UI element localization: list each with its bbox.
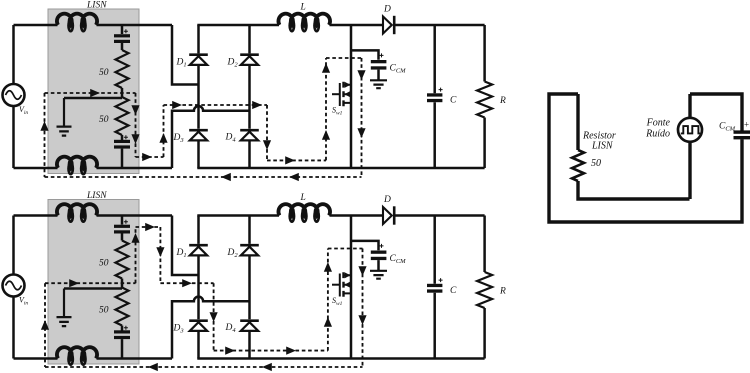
dashed CM path: to switch (267, 159, 326, 161)
dashed CM path 2: switch box left up (327, 249, 329, 351)
svg-text:50: 50 (591, 158, 601, 169)
dashed CM path: bottom return rail (45, 176, 362, 178)
dashed CM path: ground line (45, 92, 136, 94)
noise source branch (688, 94, 691, 199)
dashed CM path: switch box right down (361, 58, 363, 177)
dashed CM path 2: bottom return rail (45, 366, 363, 368)
svg-text:Ruído: Ruído (645, 129, 670, 140)
noise source (Fonte Ruido) (678, 118, 702, 142)
dashed CM path 2: left vertical (44, 283, 46, 367)
dashed CM path: down right of bridge (266, 105, 268, 160)
dashed CM path 2: ground line (45, 282, 136, 284)
converter circuit instance 2 (bottom) (3, 191, 507, 365)
dashed CM path 2: switch box right down (362, 249, 364, 368)
dashed CM path 2: switch box top (328, 248, 363, 250)
dashed CM path: switch box left up (325, 58, 327, 160)
resistor LISN 50 branch (578, 94, 690, 199)
capacitor CCM right (734, 130, 750, 133)
dashed CM path 2: to switch (214, 350, 328, 352)
dashed CM path: LISN right down (135, 93, 137, 157)
equivalent circuit outer loop (549, 94, 742, 222)
dashed CM path: up to bridge (163, 105, 165, 157)
svg-text:+: + (744, 120, 749, 130)
svg-text:Fonte: Fonte (646, 118, 671, 129)
dashed CM path: left vertical (44, 93, 46, 177)
dashed CM path 2: exit LISN high (136, 226, 161, 228)
dashed CM path: exit LISN (136, 156, 164, 158)
dashed CM path: across bridge (164, 104, 268, 106)
dashed CM path 2: down to bridge (159, 227, 161, 283)
svg-text:LISN: LISN (591, 141, 614, 152)
dashed CM path 2: across to bridge center (160, 282, 213, 284)
dashed CM path 2: LISN up (135, 227, 137, 283)
dashed CM path: switch box top (326, 57, 362, 59)
converter circuit instance 1 (top) (3, 1, 507, 175)
dashed CM path 2: down between columns (213, 283, 215, 350)
